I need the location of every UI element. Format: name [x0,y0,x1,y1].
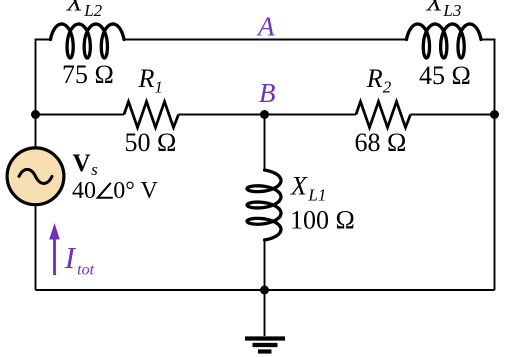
resistor R2 68 ohm [356,102,411,128]
inductor X_L3 45 ohm [407,24,482,58]
inductor X_L1 100 ohm (vertical) [247,170,281,240]
wire top rail middle (node A) [124,39,407,41]
svg-text:68 Ω: 68 Ω [355,128,407,157]
angle symbol [98,183,113,198]
junction dot bottom [260,286,269,295]
ground stem [264,290,266,336]
current arrow I_tot [53,237,56,275]
ground bar 2 [253,343,278,347]
wire middle branch lower [264,240,266,290]
svg-text:0° V: 0° V [113,178,158,204]
resistor R1 50 ohm [124,102,179,128]
junction dot left [31,110,40,119]
junction dot right [490,110,499,119]
wire middle rail between R1 and R2 (node B) [179,114,357,116]
svg-text:50 Ω: 50 Ω [125,128,177,157]
wire top-left corner: left rail upper + top stub [36,40,51,148]
svg-text:45 Ω: 45 Ω [419,61,471,90]
wire bottom rail [36,289,495,291]
sine symbol [19,169,52,183]
inductor X_L2 75 ohm [51,24,125,58]
wire middle branch upper (node B down) [264,115,266,171]
ground bar 1 [245,336,285,340]
wire left rail lower [35,206,37,290]
svg-text:A: A [256,12,275,42]
wire middle rail right lead [411,114,495,116]
wire middle rail left lead [36,114,125,116]
wire top-right corner + right rail [481,40,495,291]
ground bar 3 [258,349,272,353]
svg-text:100 Ω: 100 Ω [290,206,355,235]
svg-text:40: 40 [72,178,96,204]
svg-text:75 Ω: 75 Ω [62,60,114,89]
voltage source Vs circle [7,148,64,205]
junction dot node B [260,110,269,119]
svg-text:B: B [259,78,276,108]
